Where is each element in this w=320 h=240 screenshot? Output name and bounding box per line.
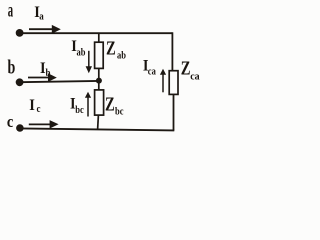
svg-text:Z: Z xyxy=(181,58,191,79)
svg-text:a: a xyxy=(8,0,13,21)
svg-text:bc: bc xyxy=(75,106,84,117)
current arrow I_bc (up) xyxy=(85,92,91,117)
node b junction dot xyxy=(96,78,102,84)
svg-text:c: c xyxy=(7,113,13,131)
wire right vertical lower segment xyxy=(173,94,175,131)
wire phase b horizontal xyxy=(20,81,99,82)
impedance Z_ca box xyxy=(169,71,178,95)
svg-text:ab: ab xyxy=(77,48,86,59)
node b terminal dot xyxy=(16,78,24,86)
impedance Z_bc box xyxy=(95,90,104,115)
svg-text:Z: Z xyxy=(105,93,115,114)
svg-text:I: I xyxy=(29,96,35,114)
label I_a xyxy=(34,3,44,23)
label I_c xyxy=(29,96,40,115)
label I_b xyxy=(40,59,51,79)
svg-text:Z: Z xyxy=(106,38,116,59)
wire stub Z_ab bottom to node b junction xyxy=(98,68,100,81)
impedance Z_ab box xyxy=(95,42,104,68)
current arrow I_ca (up) xyxy=(160,69,166,93)
wire stub node b junction to Z_bc top xyxy=(98,81,100,90)
node c terminal dot xyxy=(16,124,24,132)
label Z_ab xyxy=(106,38,126,62)
current arrow I_a xyxy=(29,25,61,34)
current arrow I_c xyxy=(29,120,59,128)
label Z_bc xyxy=(105,93,124,118)
wire right vertical upper segment xyxy=(171,32,173,71)
svg-text:b: b xyxy=(46,69,51,80)
label I_ab xyxy=(71,38,85,59)
label I_ca xyxy=(143,57,156,78)
wire stub Z_bc bottom to c-line xyxy=(97,115,100,130)
svg-text:c: c xyxy=(37,105,41,116)
label I_bc xyxy=(70,95,84,116)
node a terminal dot xyxy=(16,29,24,37)
svg-text:ca: ca xyxy=(148,67,156,78)
svg-text:ca: ca xyxy=(190,71,199,82)
svg-text:b: b xyxy=(8,56,16,78)
current arrow I_b xyxy=(28,73,57,82)
current arrow I_ab (down) xyxy=(86,51,92,74)
svg-text:bc: bc xyxy=(115,107,124,118)
svg-text:a: a xyxy=(39,12,44,23)
label Z_ca xyxy=(181,58,200,83)
wire stub a-line to Z_ab top xyxy=(98,33,100,42)
wire phase a horizontal xyxy=(20,32,173,34)
wire phase c horizontal xyxy=(20,128,174,130)
svg-text:ab: ab xyxy=(117,51,126,62)
